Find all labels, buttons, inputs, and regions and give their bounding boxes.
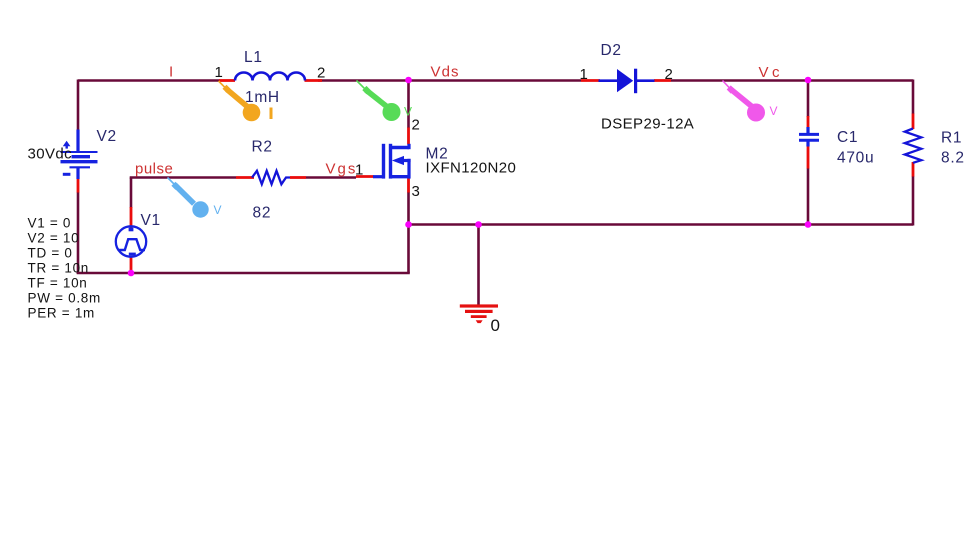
svg-text:8.2: 8.2 — [941, 150, 965, 167]
svg-text:2: 2 — [665, 66, 674, 83]
svg-text:TR = 10n: TR = 10n — [28, 261, 90, 276]
svg-text:1: 1 — [580, 66, 589, 83]
svg-text:1: 1 — [215, 64, 224, 81]
svg-text:DSEP29-12A: DSEP29-12A — [601, 116, 694, 133]
svg-text:3: 3 — [412, 183, 421, 200]
svg-text:V2: V2 — [97, 128, 117, 145]
svg-text:Vgs: Vgs — [326, 161, 358, 178]
svg-text:IXFN120N20: IXFN120N20 — [426, 160, 517, 177]
svg-text:Vc: Vc — [759, 64, 784, 81]
svg-text:V1: V1 — [141, 212, 161, 229]
svg-text:R1: R1 — [941, 130, 962, 147]
svg-text:2: 2 — [412, 117, 421, 134]
svg-text:TD = 0: TD = 0 — [28, 245, 73, 260]
svg-text:Vds: Vds — [431, 64, 460, 81]
svg-text:D2: D2 — [601, 42, 622, 59]
svg-text:2: 2 — [317, 65, 326, 82]
svg-text:PER = 1m: PER = 1m — [28, 306, 96, 321]
svg-text:R2: R2 — [252, 139, 273, 156]
svg-text:82: 82 — [253, 205, 272, 222]
svg-text:V2 = 10: V2 = 10 — [28, 230, 80, 245]
svg-text:V1 = 0: V1 = 0 — [28, 215, 72, 230]
svg-text:TF = 10n: TF = 10n — [28, 276, 88, 291]
svg-text:L1: L1 — [244, 49, 263, 66]
svg-text:PW = 0.8m: PW = 0.8m — [28, 291, 101, 306]
svg-text:V: V — [770, 104, 778, 118]
svg-text:I: I — [169, 64, 174, 81]
svg-text:1: 1 — [355, 162, 364, 179]
svg-text:1mH: 1mH — [245, 89, 280, 106]
svg-text:V: V — [214, 203, 222, 217]
svg-text:pulse: pulse — [135, 161, 173, 178]
svg-text:C1: C1 — [837, 129, 858, 146]
svg-text:30Vdc: 30Vdc — [28, 146, 73, 163]
svg-text:0: 0 — [491, 316, 501, 335]
svg-text:470u: 470u — [837, 150, 874, 167]
